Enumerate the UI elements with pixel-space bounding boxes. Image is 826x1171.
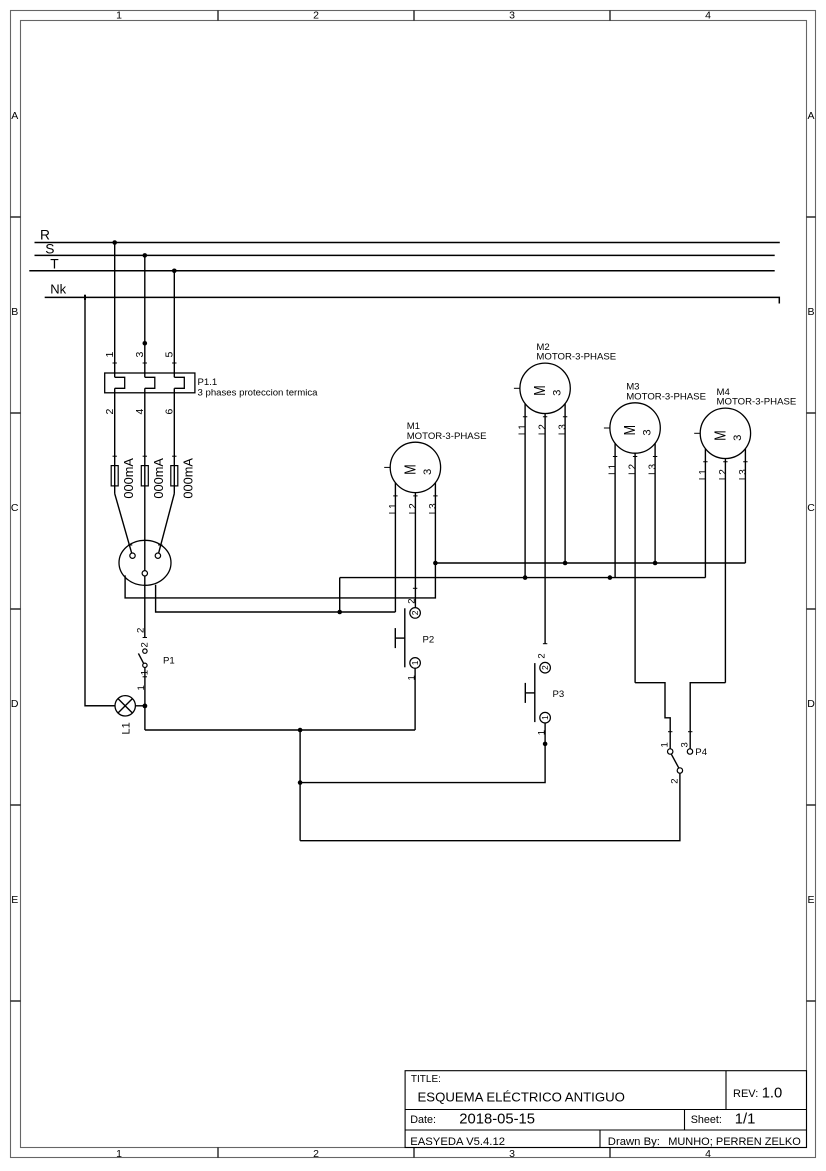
pin tick P1.1 pin3 [143, 362, 147, 364]
switch P1 top contact [143, 649, 147, 653]
frame top column ticks [218, 11, 610, 21]
motor M3 body [610, 403, 660, 453]
pushbutton P3 top contact [540, 662, 551, 673]
wire P2 bottom down [414, 668, 416, 730]
junction on socket-right run [337, 610, 342, 615]
svg-text:Nk: Nk [50, 282, 66, 297]
svg-text:MOTOR-3-PHASE: MOTOR-3-PHASE [407, 431, 487, 442]
svg-text:E: E [807, 894, 814, 906]
title block row line 2 [405, 1129, 806, 1131]
pin tick P1.1 pin5 [172, 362, 176, 364]
svg-text:ESQUEMA ELÉCTRICO ANTIGUO: ESQUEMA ELÉCTRICO ANTIGUO [418, 1090, 625, 1105]
pin tick P1.1 pin1 [113, 362, 117, 364]
svg-text:1: 1 [136, 685, 147, 690]
svg-text:L2: L2 [408, 503, 419, 515]
frame top column numbers [116, 10, 711, 22]
fuse F3 body [171, 466, 178, 486]
socket right pin circle [155, 553, 160, 558]
svg-text:P1: P1 [163, 656, 175, 667]
junction at M2 L1 [523, 575, 528, 580]
wire L1 bus run [340, 577, 706, 579]
motor M4 pin L2 wire [724, 459, 726, 683]
svg-text:1: 1 [116, 1148, 122, 1160]
junction at M3 L1 [608, 575, 613, 580]
motor M3 pin ticks [613, 456, 657, 458]
junction at M3 L3 [653, 561, 658, 566]
svg-text:1: 1 [116, 10, 122, 22]
svg-text:E: E [11, 894, 18, 906]
svg-text:M: M [622, 425, 639, 435]
svg-text:L1: L1 [388, 503, 399, 515]
wire fuse F3 diagonal to socket right pin [159, 494, 175, 554]
pushbutton P3 stem [525, 692, 535, 694]
motor M2 pin L3 wire [564, 404, 566, 563]
svg-text:2: 2 [536, 653, 547, 658]
svg-text:D: D [807, 698, 815, 710]
svg-text:1: 1 [104, 352, 116, 358]
wire P1.1 pin 2 to fuse F1 [114, 388, 116, 493]
svg-text:MUNHO; PERREN ZELKO: MUNHO; PERREN ZELKO [668, 1136, 801, 1148]
svg-text:D: D [11, 698, 19, 710]
svg-text:MOTOR-3-PHASE: MOTOR-3-PHASE [536, 352, 616, 363]
motor M3 pin L2 wire [634, 453, 636, 683]
lamp L1 right wire [135, 705, 145, 707]
switch P1 blade [138, 653, 144, 665]
svg-text:T: T [50, 257, 59, 272]
frame bottom column ticks [218, 1148, 610, 1158]
wire M3 L2 route to P4 pin 1 [635, 683, 670, 749]
svg-text:000mA: 000mA [151, 458, 166, 499]
junction on wire of P1.1 pin 3 [143, 341, 148, 346]
pushbutton P3 top pin tick [543, 643, 547, 645]
title block Sheet divider [684, 1110, 686, 1131]
motor M2 body [520, 363, 570, 413]
pushbutton P2 top pin tick [413, 587, 417, 589]
svg-text:L3: L3 [738, 469, 749, 481]
wire P1.1 pin 6 to fuse F3 [173, 388, 175, 493]
svg-text:REV:: REV: [733, 1088, 758, 1100]
svg-text:L1: L1 [698, 469, 709, 481]
svg-text:1: 1 [660, 742, 671, 747]
svg-text:1: 1 [540, 715, 550, 720]
svg-text:Sheet:: Sheet: [691, 1114, 722, 1126]
svg-text:C: C [11, 502, 19, 514]
fuse F1 element line [114, 466, 116, 486]
pin tick socket left diagonal [128, 544, 132, 546]
motor M4 left stub pin [694, 432, 700, 434]
motor M4 body [700, 408, 750, 458]
svg-text:2: 2 [669, 779, 680, 784]
svg-text:L1: L1 [518, 424, 529, 436]
socket bottom pin circle [142, 571, 147, 576]
pin tick socket right diagonal [158, 544, 162, 546]
svg-text:2: 2 [406, 599, 417, 604]
svg-text:L3: L3 [428, 503, 439, 515]
junction on R bus [112, 240, 117, 245]
motor M2 pin L2 wire [544, 414, 546, 644]
wire control run to P4 pin 2 [300, 773, 680, 841]
wire P1.1 pin 4 to fuse F2 and socket [144, 388, 146, 638]
svg-text:2: 2 [540, 665, 550, 670]
svg-text:3 phases proteccion termica: 3 phases proteccion termica [198, 388, 319, 399]
svg-text:3: 3 [680, 742, 691, 747]
title block outline [405, 1071, 806, 1148]
lamp L1 left wire [85, 705, 115, 707]
motor M1 pin L2 wire [414, 493, 416, 608]
svg-text:R: R [40, 228, 50, 243]
svg-text:C: C [807, 502, 815, 514]
svg-text:L2: L2 [718, 469, 729, 481]
wire Nk tap down to lamp L1 [85, 297, 115, 705]
svg-text:MOTOR-3-PHASE: MOTOR-3-PHASE [626, 391, 706, 402]
motor M4 pin L1 wire [704, 449, 706, 578]
junction at M2 L3 [563, 561, 568, 566]
svg-text:1.0: 1.0 [762, 1085, 783, 1101]
pin tick fuse F3 top [172, 455, 176, 457]
fuse F3 element line [173, 466, 175, 486]
pushbutton P3 bridge [534, 663, 536, 722]
frame left row letters [11, 110, 19, 906]
motor M3 pin L3 wire [654, 443, 656, 563]
frame left row ticks [11, 217, 21, 1001]
svg-text:P4: P4 [695, 747, 707, 758]
svg-text:L1: L1 [608, 463, 619, 475]
svg-text:4: 4 [705, 10, 711, 22]
net T bus line [29, 270, 774, 272]
svg-text:L3: L3 [558, 424, 569, 436]
wire R tap to P1.1 pin 1 [114, 243, 116, 378]
svg-text:3: 3 [509, 1148, 515, 1160]
svg-text:M: M [713, 430, 730, 440]
svg-text:000mA: 000mA [181, 458, 196, 499]
motor M4 pin ticks [703, 461, 747, 463]
fuse F2 body [141, 466, 148, 486]
selector P4 pin 1 contact [668, 749, 673, 754]
net Nk bus line [45, 297, 780, 303]
wire control run to P3 bottom [300, 723, 545, 783]
thermal overload P1.1 body [105, 373, 195, 393]
wire socket right pin down and right to M1 L1 [156, 585, 396, 612]
motor M1 left stub pin [384, 466, 390, 468]
svg-text:2: 2 [135, 628, 146, 633]
net R bus line [35, 242, 780, 244]
svg-text:M: M [532, 385, 549, 395]
motor M2 pin L1 wire [524, 404, 526, 578]
junction P3 bottom wire [543, 742, 548, 747]
pushbutton P2 stem [395, 637, 405, 639]
pushbutton P2 top contact [410, 608, 421, 619]
motor M2 pin ticks [523, 416, 567, 418]
P1.1 pole 3 notch [174, 377, 184, 388]
socket XS1 body circle [119, 540, 171, 585]
pushbutton P2 bottom contact [410, 658, 421, 669]
title block DrawnBy divider [599, 1130, 601, 1148]
wire control drop [299, 730, 301, 841]
lamp L1 cross [118, 699, 132, 713]
svg-text:S: S [45, 241, 54, 256]
net S bus line [35, 254, 775, 256]
motor M1 body [390, 442, 440, 492]
fuse F1 body [111, 466, 118, 486]
wire socket left pin down and right [125, 563, 435, 598]
svg-text:EASYEDA V5.4.12: EASYEDA V5.4.12 [410, 1136, 505, 1148]
junction on T bus [172, 269, 177, 274]
svg-text:L1: L1 [121, 722, 133, 734]
wire branch up to L1 bus run [339, 578, 341, 612]
svg-text:A: A [807, 110, 814, 122]
svg-text:A: A [11, 110, 18, 122]
svg-text:4: 4 [705, 1148, 711, 1160]
svg-text:2: 2 [410, 610, 420, 615]
socket left pin circle [130, 553, 135, 558]
svg-text:M: M [403, 464, 420, 474]
wire S tap to P1.1 pin 3 [144, 255, 146, 377]
junction on S bus [143, 253, 148, 258]
svg-text:P2: P2 [423, 634, 435, 645]
junction control drop [298, 780, 303, 785]
svg-text:2018-05-15: 2018-05-15 [459, 1111, 535, 1127]
svg-text:B: B [11, 306, 18, 318]
pin tick Nk tap [84, 295, 86, 300]
motor M3 left stub pin [604, 427, 610, 429]
pushbutton P2 cap [394, 628, 396, 648]
frame right row ticks [807, 217, 816, 1001]
motor M1 pin L1 wire [394, 483, 396, 612]
svg-text:L2: L2 [628, 463, 639, 475]
svg-text:5: 5 [164, 352, 176, 358]
svg-text:P3: P3 [553, 689, 565, 700]
svg-text:3: 3 [422, 469, 434, 475]
wire P1 bottom to lamp junction [144, 668, 146, 731]
frame right row letters [807, 110, 815, 906]
pin tick fuse F2 top [143, 455, 147, 457]
svg-text:3: 3 [732, 435, 744, 441]
svg-text:3: 3 [134, 352, 146, 358]
wire L3 bus run [435, 562, 745, 564]
junction control run [298, 728, 303, 733]
switch P1 pin tick bottom [143, 676, 147, 678]
pushbutton P3 cap [524, 683, 526, 703]
title block row line 1 [405, 1109, 806, 1111]
svg-text:3: 3 [552, 390, 564, 396]
title block REV divider [725, 1071, 727, 1110]
svg-text:2: 2 [313, 10, 319, 22]
svg-text:Date:: Date: [410, 1114, 436, 1126]
svg-text:B: B [807, 306, 814, 318]
svg-text:1: 1 [410, 660, 420, 665]
svg-text:L2: L2 [538, 424, 549, 436]
svg-text:1: 1 [536, 730, 547, 735]
selector P4 pin 3 contact [687, 749, 692, 754]
frame bottom column numbers [116, 1148, 711, 1160]
svg-text:TITLE:: TITLE: [411, 1074, 441, 1085]
selector P4 pin 2 contact [677, 768, 682, 773]
wire M4 L2 route to P4 pin 3 [690, 683, 725, 749]
pushbutton P2 bridge [404, 608, 406, 667]
svg-text:3: 3 [642, 429, 654, 435]
pushbutton P3 bottom contact [540, 712, 551, 723]
pin tick P4 pin 3 [688, 731, 692, 733]
wire T tap to P1.1 pin 5 [173, 271, 175, 378]
motor M1 pin L3 wire [434, 483, 436, 563]
pin tick P4 pin 1 [668, 731, 672, 733]
switch P1 pin tick top [143, 637, 147, 639]
svg-text:P1.1: P1.1 [198, 377, 218, 388]
motor M2 left stub pin [514, 387, 520, 389]
motor M4 pin L3 wire [744, 449, 746, 563]
svg-text:2: 2 [313, 1148, 319, 1160]
lamp L1 body [115, 696, 135, 716]
P1.1 pole 1 notch [115, 377, 125, 388]
wire fuse F1 diagonal to socket left pin [115, 494, 132, 554]
svg-text:1/1: 1/1 [735, 1111, 756, 1127]
junction at M1 L3 [433, 561, 438, 566]
svg-text:000mA: 000mA [121, 458, 136, 499]
svg-text:Drawn By:: Drawn By: [608, 1136, 660, 1148]
junction lamp and P1 [143, 704, 148, 709]
pin tick fuse F1 top [113, 455, 117, 457]
svg-text:2: 2 [140, 642, 151, 647]
selector P4 blade [671, 754, 679, 768]
P1.1 pole 2 notch [145, 377, 155, 388]
svg-text:MOTOR-3-PHASE: MOTOR-3-PHASE [717, 397, 797, 408]
motor M3 pin L1 wire [614, 443, 616, 577]
svg-text:L3: L3 [648, 463, 659, 475]
motor M1 pin ticks [393, 495, 437, 497]
svg-text:3: 3 [509, 10, 515, 22]
wire control run to P2 bottom [145, 729, 415, 731]
fuse F2 element line [144, 466, 146, 486]
switch P1 bottom contact [143, 663, 147, 667]
